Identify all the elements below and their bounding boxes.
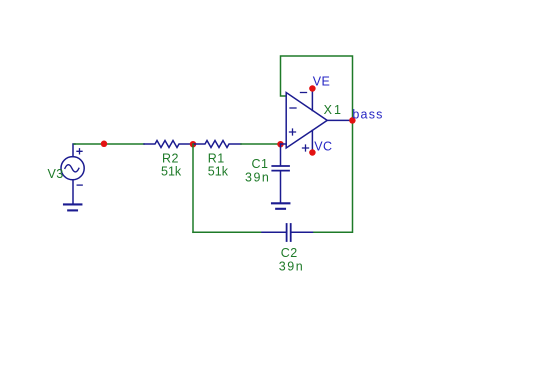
svg-text:V3: V3 xyxy=(48,167,64,181)
svg-text:C1: C1 xyxy=(252,157,269,171)
ground (below C1) xyxy=(272,203,289,209)
capacitor C2 xyxy=(262,224,314,241)
wire (R1 to op-amp + input) xyxy=(241,143,281,145)
node VC pin dot xyxy=(309,149,316,156)
svg-text:C2: C2 xyxy=(281,246,298,260)
svg-text:39n: 39n xyxy=(245,171,270,185)
op-amp X1 xyxy=(281,89,353,153)
wire (V3 to R2) xyxy=(74,143,144,145)
svg-text:39n: 39n xyxy=(279,259,304,273)
resistor R1 xyxy=(194,141,241,148)
wire (bottom feedback left segment) xyxy=(193,231,262,233)
wire (junction down to bottom feedback) xyxy=(192,144,194,232)
voltage source V3 xyxy=(61,144,84,204)
ground (below V3) xyxy=(64,204,81,210)
node junction R2/R1 xyxy=(190,141,197,148)
svg-text:51k: 51k xyxy=(208,164,229,178)
svg-text:VC: VC xyxy=(314,140,332,154)
svg-text:X1: X1 xyxy=(324,103,344,117)
node dot on input wire xyxy=(101,141,108,148)
svg-text:51k: 51k xyxy=(161,164,182,178)
wire (bottom right + right edge + top edge + left edge to minus input) xyxy=(281,56,353,232)
node VE pin dot xyxy=(309,85,316,92)
node junction R1/C1/+input xyxy=(277,141,284,148)
svg-text:bass: bass xyxy=(352,107,383,121)
node output junction xyxy=(349,117,356,124)
svg-text:VE: VE xyxy=(313,75,331,89)
resistor R2 xyxy=(144,141,192,148)
capacitor C1 xyxy=(272,144,289,203)
